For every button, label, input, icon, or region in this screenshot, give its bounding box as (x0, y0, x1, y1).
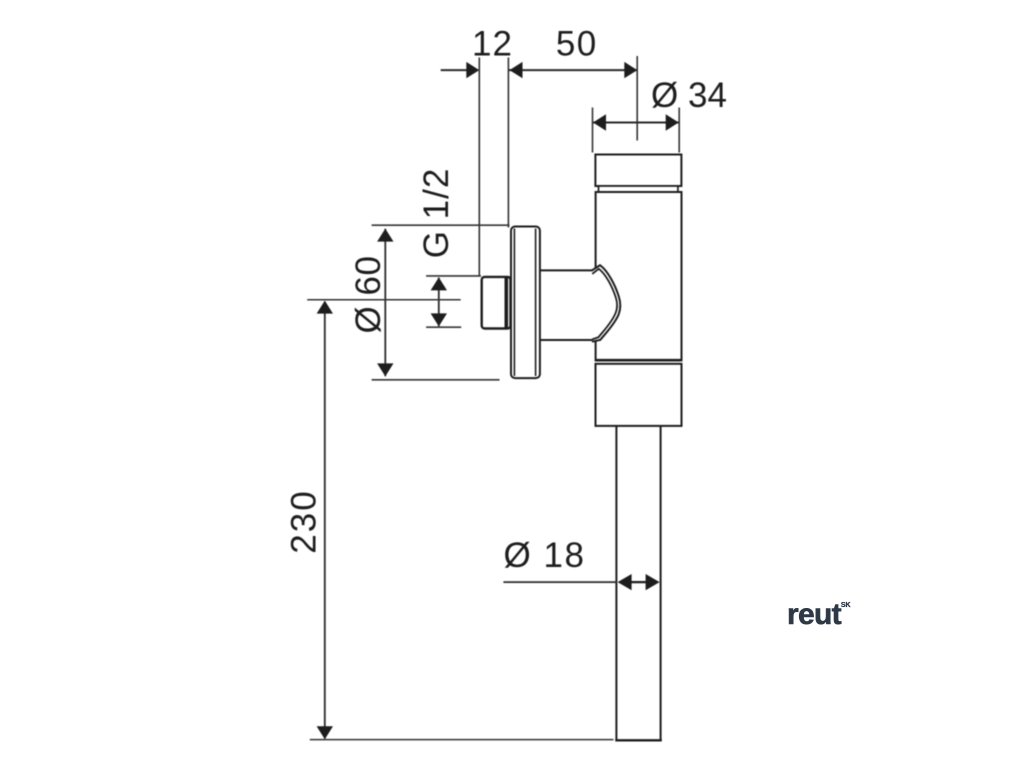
nipple end face dark band (504, 278, 508, 328)
dimension D18: double arrow across pipe (618, 574, 660, 590)
inlet flare outer edge (592, 265, 620, 342)
dimension D34: dimension line with outward arrows (593, 114, 679, 130)
wall flange inner edge right (535, 229, 537, 377)
svg-text:Ø 60: Ø 60 (349, 256, 388, 334)
dimension 12: extension line right (507, 58, 509, 228)
dimension 50: dimension line with arrows (509, 62, 637, 78)
valve lower body (596, 364, 682, 426)
inlet pipe bottom line (540, 339, 593, 341)
dimension 50: center extension line (636, 56, 638, 141)
logo reut (watermark) (787, 600, 851, 630)
dimension 12: tail line with arrow (441, 62, 480, 78)
svg-text:50: 50 (556, 25, 598, 64)
svg-text:230: 230 (285, 489, 324, 553)
inlet flare inner edge (592, 269, 617, 340)
dimension G1/2: extension line top (426, 275, 481, 277)
svg-text:Ø 18: Ø 18 (504, 536, 586, 575)
wall flange outer (511, 227, 540, 379)
outlet pipe left wall (615, 426, 617, 741)
pipe end baseline (310, 739, 614, 741)
svg-text:Ø 34: Ø 34 (651, 76, 727, 115)
valve cap (push button) (595, 155, 681, 187)
inlet pipe top line (540, 269, 593, 271)
valve upper body (596, 192, 682, 360)
inlet flare fill (hides body edge) (592, 265, 620, 342)
dimension 12: extension line left (478, 58, 480, 276)
svg-text:G 1/2: G 1/2 (417, 168, 456, 259)
dimension G1/2: extension line bottom (426, 326, 461, 328)
body bottom thick joint (596, 359, 681, 362)
inlet axis centerline (307, 299, 461, 301)
cap joint band (599, 186, 678, 192)
dimension D60: dimension line with outward arrows (377, 229, 393, 377)
dimension D34: extension line right (678, 108, 680, 153)
svg-text:12: 12 (472, 25, 513, 64)
outlet pipe bottom cap (615, 739, 662, 741)
threaded nipple G1/2 (482, 277, 511, 329)
dimension D18: leader line (503, 581, 617, 583)
dimension D60: extension line top (372, 224, 510, 226)
dimension D34: extension line left (592, 108, 594, 153)
dimension D60: extension line bottom (372, 379, 500, 381)
dimension G1/2: dimension line with outward arrows (431, 277, 447, 326)
dimension 230: dimension line with outward arrows (317, 301, 333, 740)
wall flange inner edge left (513, 229, 515, 377)
outlet pipe right wall (660, 426, 662, 741)
